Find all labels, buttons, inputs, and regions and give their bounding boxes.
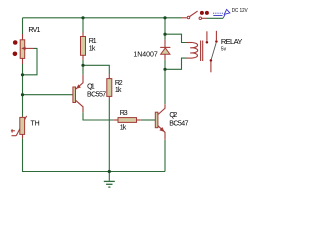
svg-text:R1: R1 — [89, 38, 97, 45]
svg-text:BC547: BC547 — [169, 121, 188, 128]
svg-text:1N4007: 1N4007 — [133, 51, 157, 58]
svg-text:Q1: Q1 — [87, 83, 95, 90]
svg-text:BC557: BC557 — [87, 92, 106, 99]
svg-text:Q2: Q2 — [169, 112, 177, 119]
svg-text:1k: 1k — [120, 125, 127, 132]
svg-text:RELAY: RELAY — [221, 37, 243, 46]
svg-text:R2: R2 — [115, 80, 123, 87]
svg-text:5v: 5v — [221, 47, 227, 53]
svg-text:RV1: RV1 — [28, 27, 40, 34]
svg-text:TH: TH — [31, 120, 40, 127]
svg-text:1k: 1k — [89, 46, 96, 53]
svg-text:R3: R3 — [120, 110, 128, 117]
svg-text:1k: 1k — [115, 87, 122, 94]
svg-text:DC 12V: DC 12V — [232, 8, 248, 14]
